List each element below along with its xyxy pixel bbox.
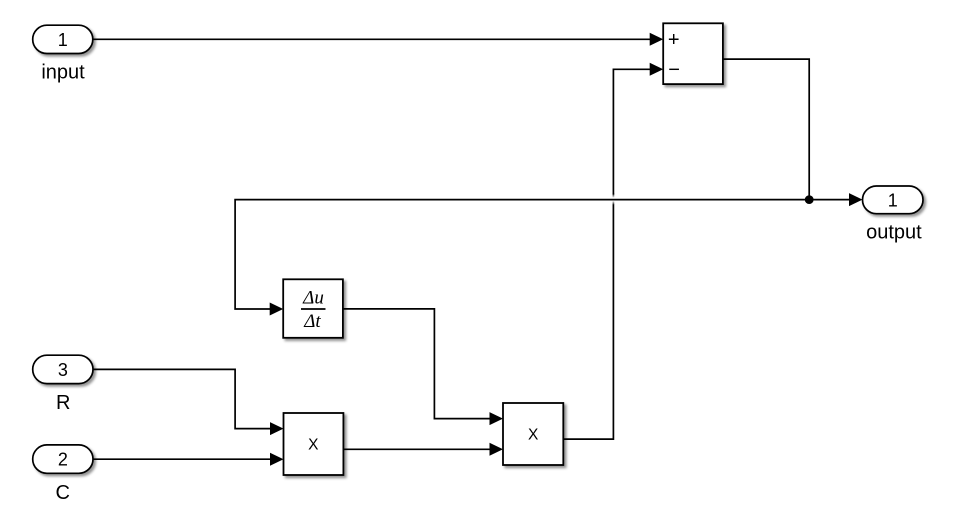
product1 block bbox=[284, 413, 344, 475]
svg-text:Δu: Δu bbox=[302, 288, 324, 309]
derivative block bbox=[283, 279, 343, 338]
inport 2 block bbox=[33, 445, 93, 473]
svg-text:C: C bbox=[56, 482, 70, 504]
svg-text:+: + bbox=[668, 29, 680, 51]
inport 3 block bbox=[33, 355, 93, 383]
svg-text:1: 1 bbox=[888, 190, 898, 210]
arrowhead product2 input 2 bbox=[490, 443, 504, 456]
arrowhead product1 input 2 bbox=[270, 453, 284, 466]
wire port C to product1 input 2 bbox=[93, 458, 271, 460]
arrowhead output port bbox=[849, 193, 863, 206]
svg-text:X: X bbox=[308, 436, 319, 453]
arrowhead sum minus input bbox=[650, 63, 664, 76]
arrowhead product2 input 1 bbox=[490, 412, 504, 425]
wire node A to output port bbox=[809, 199, 850, 201]
outport 1 block bbox=[863, 186, 924, 214]
inport 1 block bbox=[33, 25, 93, 53]
wire port R to product1 input 1 bbox=[93, 369, 271, 428]
product2 block bbox=[503, 403, 563, 465]
svg-text:output: output bbox=[866, 221, 922, 243]
wire derivative to product2 input 1 bbox=[343, 309, 491, 419]
arrowhead sum plus input bbox=[650, 33, 664, 46]
arrowhead derivative input bbox=[270, 303, 284, 316]
svg-text:3: 3 bbox=[58, 360, 68, 380]
svg-text:R: R bbox=[56, 392, 70, 414]
wire product2 to sum minus bbox=[563, 205, 613, 439]
svg-text:2: 2 bbox=[58, 450, 68, 470]
svg-text:X: X bbox=[528, 427, 539, 444]
svg-text:Δt: Δt bbox=[303, 311, 321, 332]
svg-text:1: 1 bbox=[58, 30, 68, 50]
svg-text:input: input bbox=[41, 62, 85, 84]
wire feedback node A to derivative bbox=[235, 200, 809, 309]
wire sum output to node A bbox=[723, 59, 809, 200]
arrowhead product1 input 1 bbox=[270, 422, 284, 435]
node A junction dot bbox=[805, 195, 814, 204]
wire product1 to product2 input 2 bbox=[343, 448, 490, 450]
svg-text:−: − bbox=[668, 59, 680, 81]
sum block bbox=[663, 23, 723, 84]
wire input to sum plus bbox=[93, 38, 651, 40]
